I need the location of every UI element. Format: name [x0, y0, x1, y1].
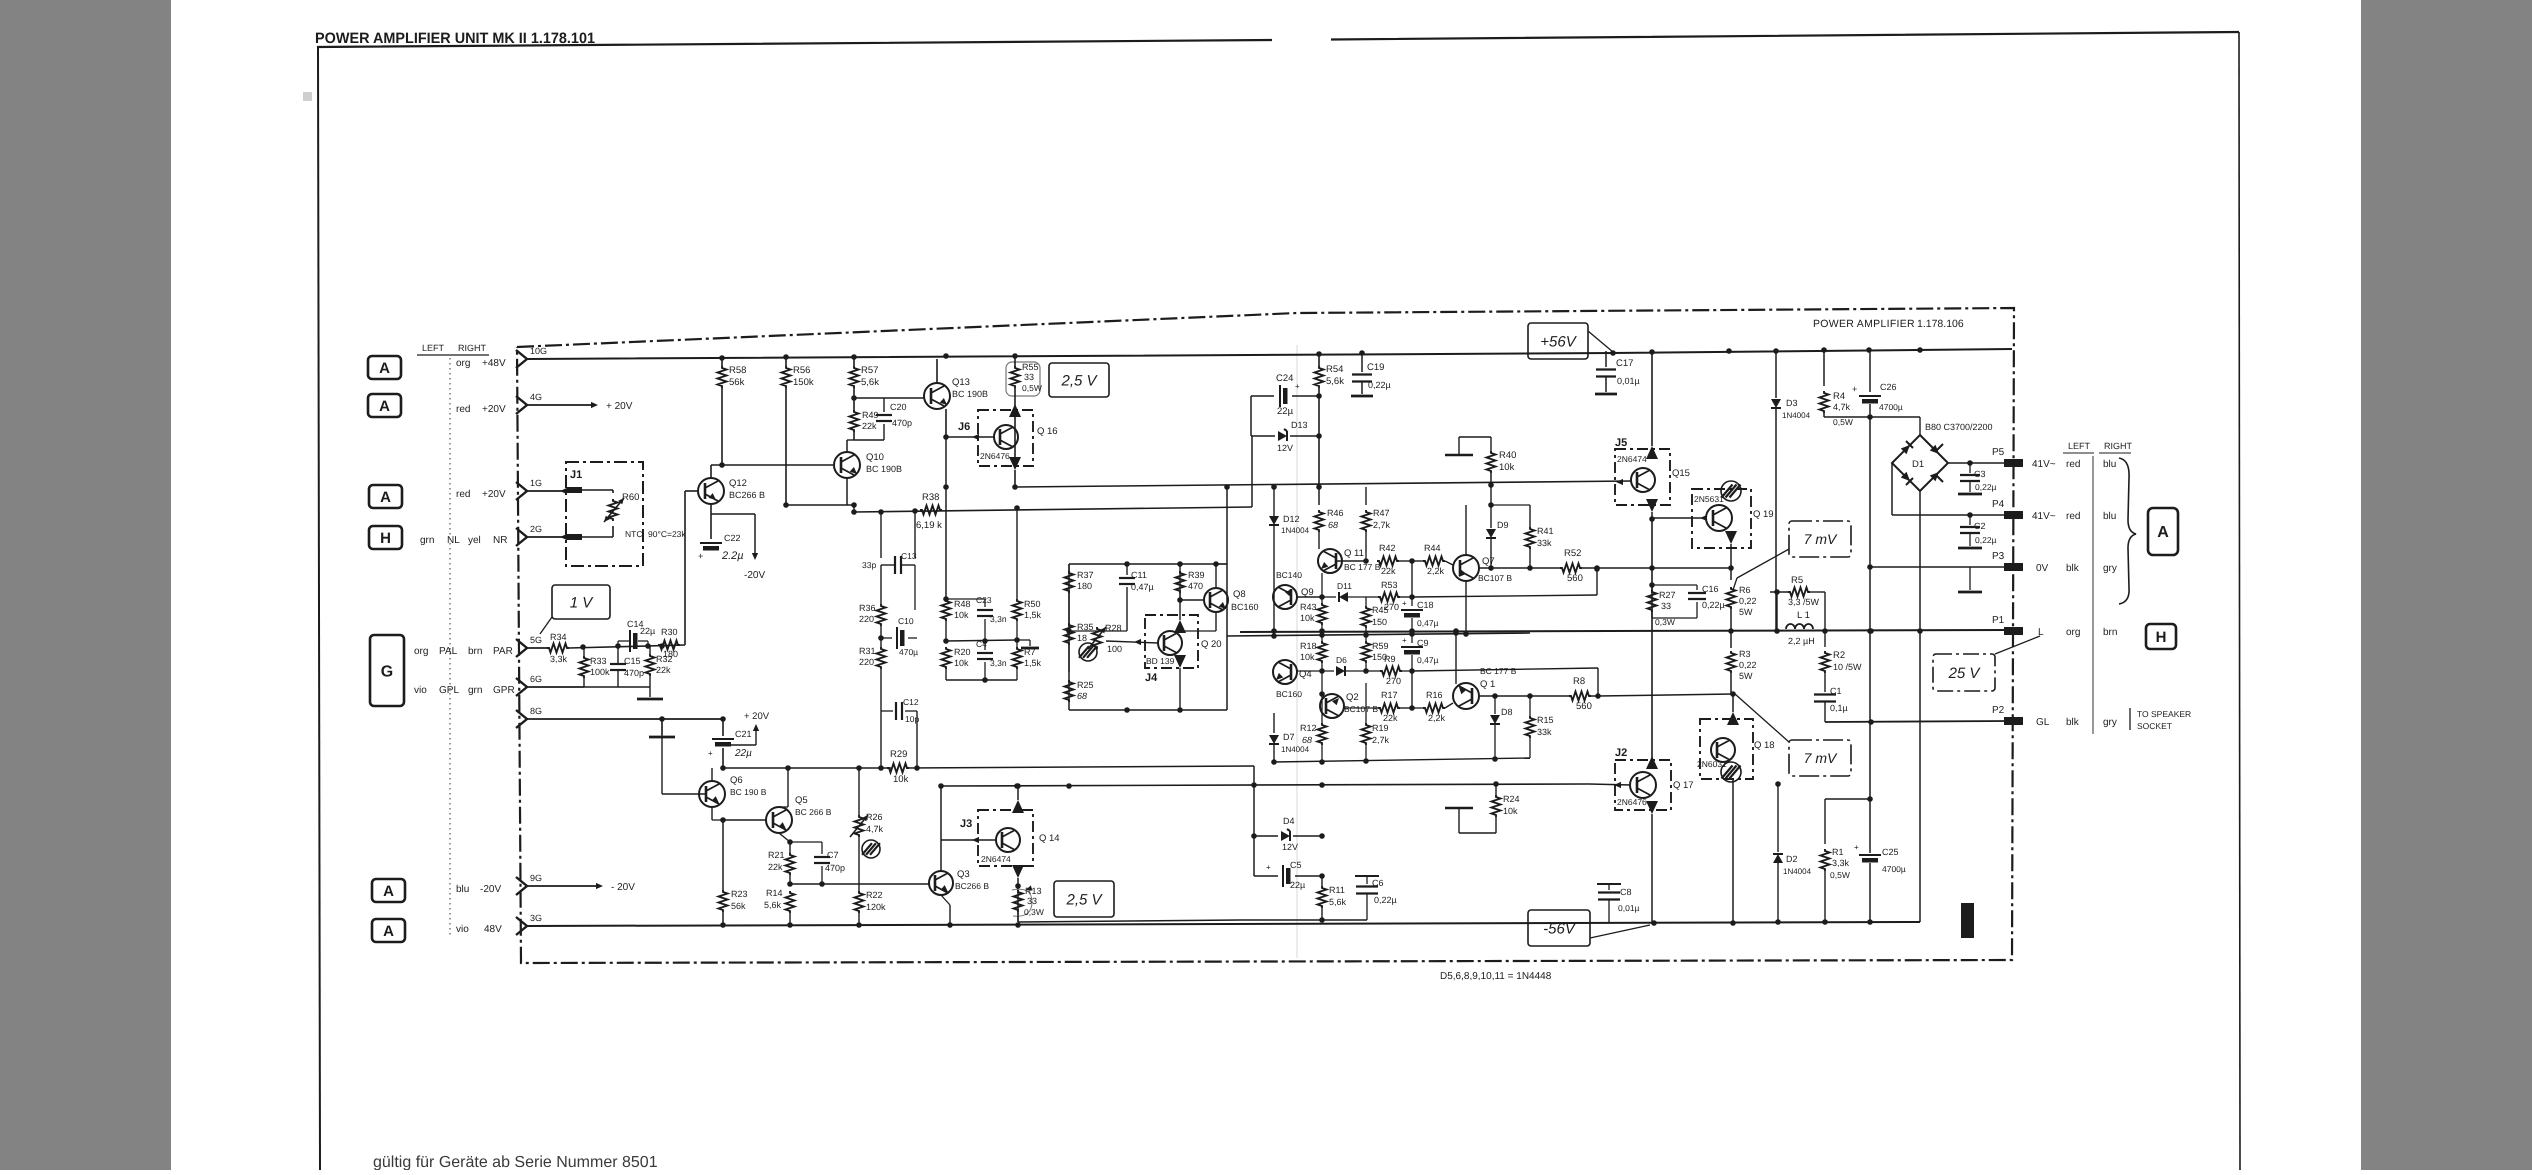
capacitor C14 [629, 630, 631, 652]
resistor R24 [1495, 784, 1497, 795]
wire -20V arrow [711, 513, 755, 515]
svg-text:41V~: 41V~ [2032, 511, 2056, 522]
svg-text:R37: R37 [1077, 570, 1094, 580]
svg-text:BC 177 B: BC 177 B [1480, 666, 1517, 676]
svg-text:BC140: BC140 [1276, 570, 1302, 580]
svg-text:R18: R18 [1300, 641, 1317, 651]
wire bridge to P5 [1948, 462, 2008, 464]
svg-text:BD 139: BD 139 [1146, 656, 1175, 666]
svg-text:G: G [381, 663, 393, 680]
box A3 [369, 485, 402, 508]
resistor R38 [920, 506, 942, 515]
capacitor C21 [722, 719, 724, 736]
resistor R57 [853, 357, 855, 366]
svg-text:H: H [380, 530, 391, 547]
svg-text:8G: 8G [530, 706, 542, 716]
diode D2 [1777, 784, 1779, 852]
capacitor C13 33p [880, 512, 882, 558]
svg-text:LEFT: LEFT [2068, 441, 2091, 451]
wire GL/P2 line [1825, 721, 2008, 722]
box A4 [372, 879, 405, 902]
connector pin 4G [516, 396, 527, 414]
svg-text:Q 18: Q 18 [1754, 740, 1775, 751]
resistor R48 [942, 599, 951, 621]
svg-text:Q 20: Q 20 [1201, 639, 1222, 650]
wire R8 line [1479, 695, 1569, 697]
svg-text:R38: R38 [922, 492, 939, 503]
svg-text:R48: R48 [954, 599, 971, 609]
svg-text:GL: GL [2036, 717, 2050, 728]
svg-text:10k: 10k [954, 610, 969, 620]
svg-text:2N6476: 2N6476 [1617, 797, 1647, 807]
svg-text:0,5W: 0,5W [1022, 383, 1042, 393]
svg-text:Q 17: Q 17 [1673, 780, 1694, 791]
svg-text:+48V: +48V [482, 358, 506, 369]
svg-text:C11: C11 [1131, 570, 1147, 580]
svg-text:BC266 B: BC266 B [955, 881, 989, 891]
svg-text:5,6k: 5,6k [1329, 897, 1347, 907]
box A2 [368, 394, 401, 417]
svg-text:220: 220 [859, 614, 874, 624]
wire to Q13 base [884, 397, 925, 399]
resistor R37 [1068, 564, 1070, 572]
svg-text:56k: 56k [729, 377, 745, 388]
resistor R46 [1318, 487, 1320, 505]
wire 636 line [1227, 633, 1530, 636]
capacitor C23 [984, 599, 986, 607]
svg-text:gry: gry [2103, 563, 2117, 574]
svg-text:C3: C3 [1974, 469, 1986, 479]
svg-text:-56V: -56V [1543, 920, 1577, 937]
svg-text:2G: 2G [530, 524, 542, 534]
svg-text:18: 18 [1077, 633, 1087, 643]
svg-text:100: 100 [1107, 644, 1122, 654]
right scanner gray bar [2361, 0, 2532, 1170]
svg-text:org: org [414, 646, 428, 657]
resistor R12 [1321, 694, 1323, 723]
svg-text:+: + [1402, 636, 1407, 645]
svg-text:R19: R19 [1372, 723, 1389, 733]
transistor Q19 + 2N5631 [1692, 489, 1751, 548]
wire +48V top rail [527, 349, 2012, 359]
svg-text:+: + [698, 551, 703, 561]
svg-text:blk: blk [2066, 563, 2080, 574]
svg-text:R46: R46 [1327, 508, 1344, 518]
TO SPEAKER SOCKET [2129, 708, 2131, 730]
resistor R20 [942, 647, 951, 669]
box G1 [370, 635, 404, 706]
svg-text:R47: R47 [1373, 508, 1390, 518]
svg-text:5,6k: 5,6k [1326, 376, 1344, 387]
J1 thermistor box [566, 462, 643, 566]
connector pin 3G [516, 917, 527, 935]
capacitor C22 [710, 504, 712, 539]
wire bottom rail 3G/-56V [527, 922, 1920, 926]
svg-text:red: red [2066, 511, 2080, 522]
svg-text:R58: R58 [729, 365, 746, 376]
svg-text:R1: R1 [1832, 847, 1844, 857]
resistor R16 [1412, 707, 1423, 709]
resistor R39 [1179, 564, 1181, 566]
resistor R45 [1365, 597, 1367, 606]
svg-text:560: 560 [1567, 573, 1583, 584]
wire R52 line [1479, 567, 1560, 569]
svg-text:C8: C8 [1620, 887, 1632, 897]
svg-text:B80 C3700/2200: B80 C3700/2200 [1925, 422, 1993, 432]
svg-text:NL: NL [447, 535, 460, 546]
svg-text:Q2: Q2 [1346, 692, 1359, 703]
capacitor C3 [1969, 463, 1971, 473]
svg-text:LEFT: LEFT [422, 343, 445, 353]
svg-text:D12: D12 [1283, 514, 1300, 524]
svg-text:P2: P2 [1992, 705, 2005, 716]
svg-text:BC160: BC160 [1231, 602, 1259, 612]
capacitor C17 [1605, 351, 1607, 367]
J3 box [978, 810, 1033, 866]
svg-text:+20V: +20V [482, 489, 506, 500]
svg-text:C20: C20 [890, 402, 907, 412]
svg-text:yel: yel [468, 535, 481, 546]
svg-text:0,47µ: 0,47µ [1417, 618, 1439, 628]
svg-text:Q8: Q8 [1233, 589, 1246, 600]
transistor Q9 [1273, 585, 1297, 609]
thick I mark [1961, 903, 1974, 938]
left scanner gray bar [0, 0, 171, 1170]
wire R7/R20 bottom [946, 679, 1017, 681]
wire R40 column [1445, 454, 1473, 457]
svg-text:R20: R20 [954, 647, 971, 657]
svg-text:grn: grn [468, 685, 482, 696]
wire to Q12 base [684, 491, 686, 645]
wire Q4 row [1297, 670, 1334, 672]
svg-text:0,3W: 0,3W [1024, 907, 1044, 917]
capacitor C8 [1608, 884, 1610, 890]
diode D9 [1490, 485, 1492, 528]
svg-text:R12: R12 [1300, 723, 1317, 733]
svg-text:6,19 k: 6,19 k [916, 520, 942, 531]
resistor R7 [1013, 647, 1022, 669]
svg-text:BC 190B: BC 190B [866, 464, 902, 474]
wire line y487 [1015, 481, 1631, 487]
J2 box / Q17 [1615, 760, 1671, 810]
svg-text:A: A [380, 489, 391, 506]
svg-text:Q10: Q10 [866, 452, 884, 463]
svg-text:BC107 B: BC107 B [1344, 704, 1378, 714]
diode D8 [1494, 696, 1496, 714]
resistor R18 [1321, 636, 1323, 641]
svg-text:blu: blu [2103, 511, 2116, 522]
resistor R5 [1776, 592, 1778, 631]
svg-text:J1: J1 [570, 469, 582, 481]
wire bridge to P4 [1891, 463, 1893, 515]
svg-text:+: + [1852, 384, 1857, 394]
svg-text:C26: C26 [1880, 382, 1897, 392]
brace [2119, 458, 2136, 604]
svg-text:D13: D13 [1291, 420, 1308, 430]
resistor R21 [786, 853, 795, 875]
svg-text:2,7k: 2,7k [1372, 735, 1390, 745]
wire cluster mid [946, 640, 1017, 641]
svg-text:2,2k: 2,2k [1428, 713, 1446, 723]
wire 2G to J1 [527, 536, 567, 538]
svg-text:Q 14: Q 14 [1039, 833, 1060, 844]
zener D13 [1251, 435, 1275, 437]
svg-text:A: A [379, 360, 390, 377]
svg-text:P1: P1 [1992, 615, 2005, 626]
svg-text:10 /5W: 10 /5W [1833, 662, 1862, 672]
wire 1G to J1 [527, 490, 567, 492]
svg-text:R21: R21 [768, 850, 785, 860]
svg-text:10k: 10k [1503, 806, 1518, 816]
transistor Q2 [1320, 694, 1344, 718]
svg-text:R43: R43 [1300, 602, 1317, 612]
svg-text:R23: R23 [731, 889, 748, 899]
svg-text:blu: blu [2103, 459, 2116, 470]
svg-text:RIGHT: RIGHT [2104, 441, 2133, 451]
wire Q6 emitter down [711, 807, 713, 820]
svg-text:33: 33 [1024, 372, 1034, 382]
wire R1/C25 top link [1825, 798, 1870, 800]
svg-text:56k: 56k [731, 901, 746, 911]
svg-text:R33: R33 [590, 656, 607, 666]
svg-text:5,6k: 5,6k [861, 377, 879, 388]
svg-text:Q7: Q7 [1482, 556, 1495, 567]
svg-text:PAL: PAL [439, 646, 458, 657]
svg-text:J6: J6 [958, 421, 970, 433]
capacitor C20 [854, 397, 884, 399]
svg-text:R42: R42 [1379, 543, 1396, 553]
resistor R4 [1823, 350, 1825, 386]
svg-text:A: A [2157, 524, 2169, 541]
resistor R47 [1365, 487, 1367, 505]
resistor R31 [877, 647, 886, 669]
svg-text:C16: C16 [1702, 584, 1719, 594]
svg-text:150k: 150k [793, 377, 814, 388]
transistor Q18 + 2N6031 [1700, 719, 1753, 779]
svg-text:R41: R41 [1537, 526, 1554, 536]
svg-text:22µ: 22µ [640, 626, 655, 636]
svg-text:C24: C24 [1276, 373, 1293, 384]
ground (cluster) [1017, 639, 1030, 641]
svg-text:R26: R26 [866, 812, 883, 822]
svg-text:C13: C13 [901, 551, 917, 561]
svg-text:C19: C19 [1367, 362, 1384, 373]
svg-text:120k: 120k [866, 902, 886, 912]
resistor R2 [1824, 631, 1826, 647]
svg-text:R11: R11 [1329, 885, 1345, 895]
svg-text:J2: J2 [1615, 747, 1627, 759]
wire 694-762 links [1274, 758, 1530, 762]
svg-text:red: red [456, 489, 470, 500]
resistor R53 [1366, 596, 1378, 598]
ground (P3) [1969, 567, 1971, 590]
svg-text:1N4004: 1N4004 [1281, 526, 1310, 535]
capacitor C4 [984, 640, 986, 650]
svg-text:R55: R55 [1022, 362, 1039, 372]
svg-text:BC266 B: BC266 B [729, 490, 765, 500]
svg-text:L 1: L 1 [1797, 610, 1810, 621]
svg-text:2N6474: 2N6474 [1617, 454, 1647, 464]
svg-text:22k: 22k [656, 665, 671, 675]
bridge rectifier D1 [1892, 435, 1948, 491]
svg-text:red: red [456, 404, 470, 415]
svg-text:R7: R7 [1024, 647, 1036, 657]
bridge bottom down [1919, 491, 1921, 631]
svg-text:3,3 /5W: 3,3 /5W [1788, 597, 1820, 607]
svg-text:GPR: GPR [493, 685, 515, 696]
svg-text:1G: 1G [530, 478, 542, 488]
R55 with outline [1006, 362, 1040, 396]
svg-text:3,3k: 3,3k [550, 654, 568, 664]
svg-text:7 mV: 7 mV [1804, 750, 1838, 766]
svg-text:Q12: Q12 [729, 478, 747, 489]
wire subckt bottom [1069, 709, 1227, 711]
svg-text:vio: vio [414, 685, 427, 696]
resistor R17 [1344, 707, 1378, 709]
capacitor C12 [880, 703, 882, 768]
svg-text:90°C=23k: 90°C=23k [648, 529, 686, 539]
capacitor C2 [1969, 515, 1971, 525]
wire Q5 emitter [779, 833, 790, 842]
capacitor C15 [610, 663, 626, 665]
resistor R23 [719, 890, 728, 912]
svg-text:R24: R24 [1503, 794, 1520, 804]
resistor R15 [1529, 696, 1531, 716]
25V box [1933, 654, 1995, 691]
transistor Q12 [698, 478, 724, 504]
svg-text:NR: NR [493, 535, 507, 546]
svg-text:220: 220 [859, 657, 874, 667]
svg-text:9G: 9G [530, 873, 542, 883]
svg-text:C12: C12 [903, 697, 919, 707]
svg-text:blk: blk [2066, 717, 2080, 728]
connector pin 1G [516, 482, 527, 500]
svg-text:0,47µ: 0,47µ [1417, 655, 1439, 665]
svg-text:SOCKET: SOCKET [2137, 721, 2172, 731]
svg-text:33k: 33k [1537, 727, 1552, 737]
svg-text:C2: C2 [1974, 521, 1986, 531]
svg-text:P3: P3 [1992, 551, 2005, 562]
svg-text:D1: D1 [1912, 459, 1924, 470]
svg-text:R39: R39 [1188, 570, 1205, 580]
capacitor C6 [1366, 876, 1368, 884]
transistor Q5 [766, 807, 792, 833]
transistor Q1 [1453, 683, 1479, 709]
svg-text:R52: R52 [1564, 548, 1581, 559]
transistor Q6 [699, 781, 725, 807]
transistor Q8 [1204, 588, 1228, 612]
svg-text:150: 150 [1372, 617, 1387, 627]
page border right [2239, 32, 2240, 1170]
handwritten 2,5V box bottom [1054, 881, 1114, 917]
svg-text:R56: R56 [793, 365, 810, 376]
diode D11 [1322, 596, 1336, 598]
svg-text:TO SPEAKER: TO SPEAKER [2137, 709, 2191, 719]
svg-text:68: 68 [1328, 520, 1338, 530]
connector pin 9G [516, 877, 527, 895]
wire Q13-J6 column down [945, 437, 947, 487]
svg-text:3,3n: 3,3n [990, 658, 1007, 668]
svg-text:Q15: Q15 [1672, 468, 1690, 479]
page border top [317, 32, 2239, 47]
svg-text:C21: C21 [735, 729, 752, 739]
J6 box [978, 410, 1033, 466]
svg-text:+: + [1266, 863, 1271, 872]
diode D4 (zener) [1254, 835, 1278, 837]
svg-text:org: org [456, 358, 470, 369]
resistor R59 [1365, 636, 1367, 641]
svg-text:R25: R25 [1077, 680, 1094, 690]
svg-text:R44: R44 [1424, 543, 1441, 553]
resistor R22 [855, 891, 864, 913]
resistor R36 [880, 565, 882, 604]
svg-text:6G: 6G [530, 674, 542, 684]
svg-text:0,47µ: 0,47µ [1131, 582, 1154, 592]
trimmer R28 [1093, 627, 1102, 649]
resistor R32 [646, 654, 655, 676]
box A1 [368, 356, 401, 379]
svg-text:C25: C25 [1882, 847, 1899, 857]
svg-text:+56V: +56V [1540, 333, 1577, 350]
svg-text:D8: D8 [1501, 707, 1513, 717]
diode D12 [1273, 487, 1275, 516]
svg-text:org: org [2066, 627, 2080, 638]
svg-text:3,3n: 3,3n [990, 614, 1007, 624]
transistor Q14 [996, 828, 1020, 852]
wire Q3 collector up [940, 786, 942, 871]
transistor Q11 [1318, 549, 1342, 573]
resistor R29 [887, 764, 909, 773]
svg-text:4700µ: 4700µ [1879, 402, 1903, 412]
svg-text:Q 1: Q 1 [1480, 679, 1495, 690]
-56V box [1528, 910, 1590, 946]
svg-text:5G: 5G [530, 635, 542, 645]
svg-text:22k: 22k [1381, 566, 1396, 576]
wire y784 to Q17 base [1588, 783, 1590, 785]
resistor R54 [1318, 355, 1320, 366]
svg-text:10k: 10k [1499, 462, 1515, 473]
svg-text:33: 33 [1027, 896, 1037, 906]
transistor Q15 [1631, 468, 1655, 492]
resistor R11 [1321, 876, 1323, 886]
resistor R58 [721, 358, 723, 366]
svg-text:2.2µ: 2.2µ [721, 550, 744, 562]
svg-text:0,22µ: 0,22µ [1374, 895, 1397, 905]
resistor R6 [1730, 568, 1732, 580]
svg-text:gry: gry [2103, 717, 2117, 728]
resistor R34 [547, 644, 569, 653]
svg-text:+20V: +20V [482, 404, 506, 415]
svg-text:R45: R45 [1372, 605, 1389, 615]
svg-text:D9: D9 [1497, 520, 1509, 530]
svg-text:-20V: -20V [744, 570, 765, 581]
svg-text:22µ: 22µ [1290, 880, 1305, 890]
svg-text:BC 190B: BC 190B [952, 389, 988, 399]
connector pin 5G [516, 639, 527, 657]
wire output L line [1240, 630, 2008, 632]
svg-text:NTC: NTC [625, 529, 642, 539]
wire R35/R28 row [1069, 630, 1127, 632]
svg-text:1N4004: 1N4004 [1782, 411, 1811, 420]
svg-text:470: 470 [1188, 581, 1203, 591]
svg-text:2,7k: 2,7k [1373, 520, 1391, 530]
+56V box [1528, 323, 1588, 359]
svg-text:4,7k: 4,7k [866, 824, 884, 834]
wire Q15 base [1616, 479, 1623, 485]
svg-text:Q 19: Q 19 [1753, 509, 1774, 520]
adjust symbol (R26) [862, 840, 880, 858]
svg-text:2N6031: 2N6031 [1697, 759, 1727, 769]
